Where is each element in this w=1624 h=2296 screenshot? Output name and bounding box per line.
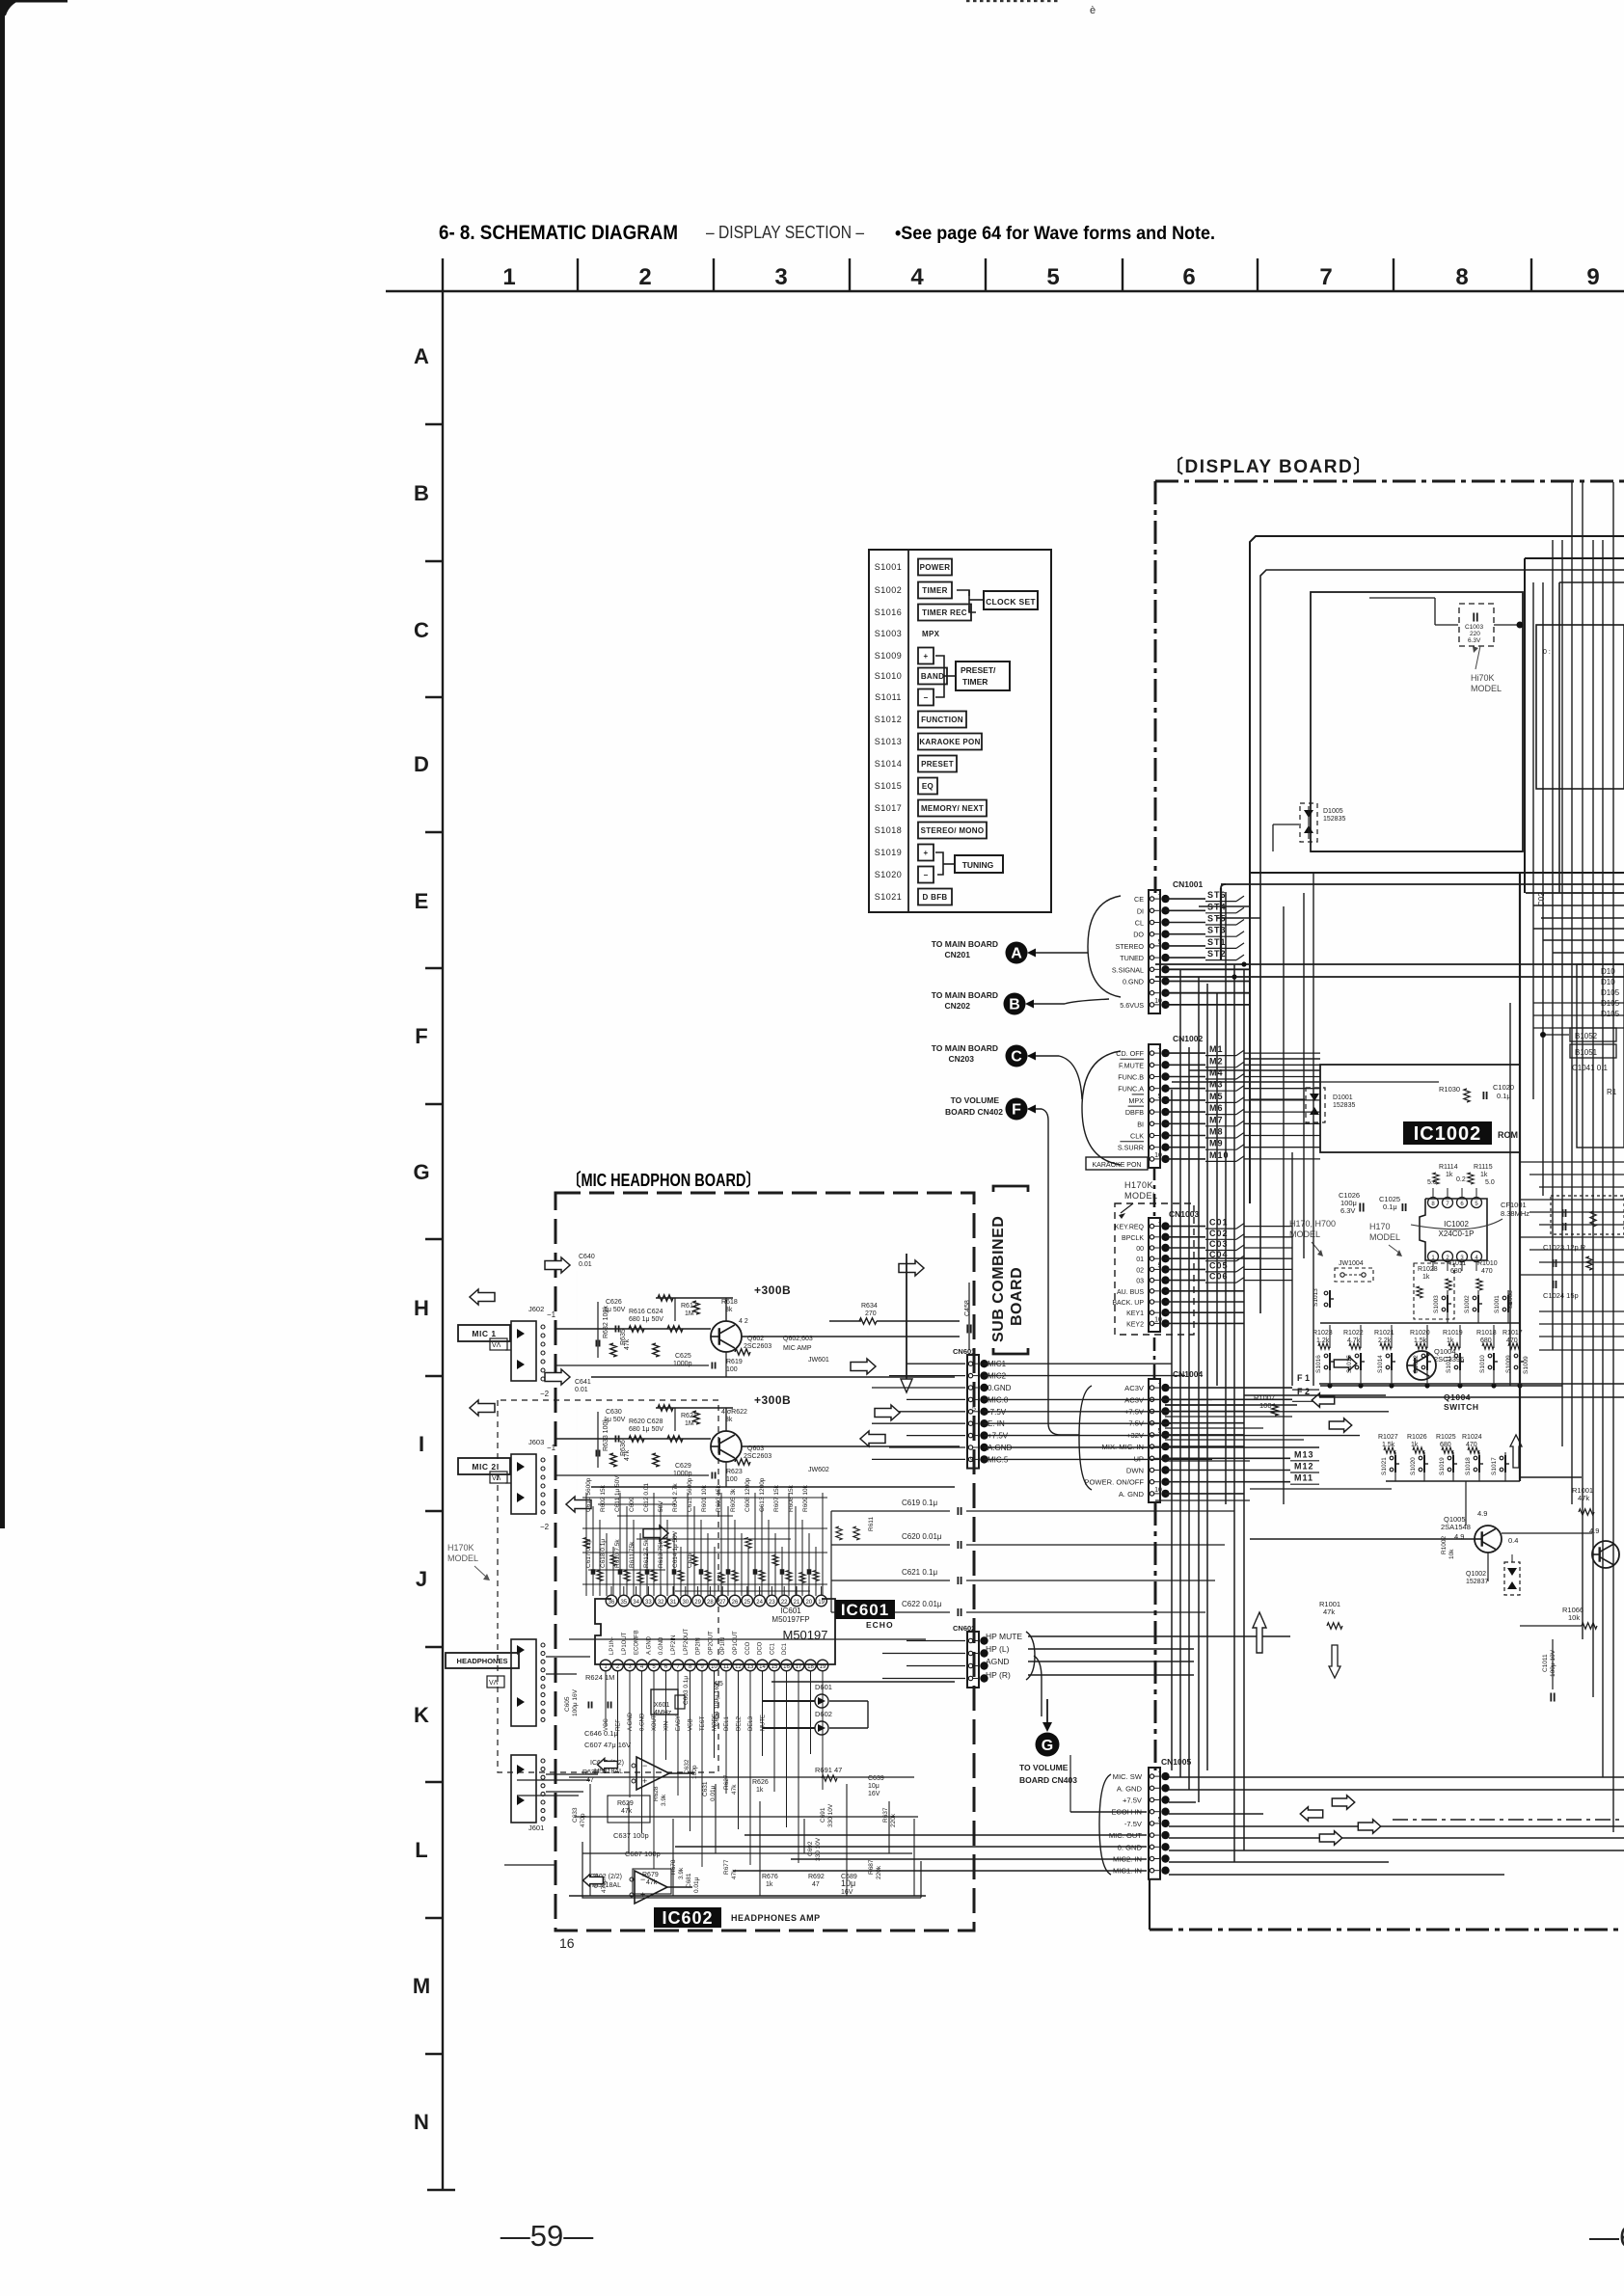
svg-text:HEADPHONES: HEADPHONES	[457, 1657, 508, 1665]
svg-text:ST1: ST1	[1207, 937, 1227, 947]
svg-text:C604 100μ 16V: C604 100μ 16V	[714, 1682, 720, 1726]
svg-text:−2: −2	[540, 1390, 550, 1398]
svg-text:TUNED: TUNED	[1120, 954, 1144, 962]
svg-text:H170K: H170K	[447, 1543, 474, 1553]
svg-text:3k: 3k	[725, 1417, 733, 1423]
svg-text:0.GND: 0.GND	[659, 1636, 664, 1655]
svg-text:AU. BUS: AU. BUS	[1117, 1289, 1144, 1296]
svg-text:CCO: CCO	[745, 1641, 751, 1655]
svg-text:S1003: S1003	[875, 629, 903, 638]
svg-text:MODEL: MODEL	[1289, 1229, 1320, 1239]
svg-text:13: 13	[747, 1664, 754, 1670]
svg-text:1: 1	[972, 1360, 976, 1366]
svg-text:R691 47: R691 47	[815, 1766, 842, 1774]
svg-text:0 :: 0 :	[1543, 649, 1551, 656]
svg-text:SWITCH: SWITCH	[1444, 1402, 1479, 1412]
svg-text:R676: R676	[762, 1874, 778, 1880]
svg-text:S.SURR: S.SURR	[1118, 1144, 1144, 1152]
svg-text:F.MUTE: F.MUTE	[1119, 1061, 1144, 1069]
svg-text:C615 5600p: C615 5600p	[687, 1477, 693, 1512]
svg-text:16V: 16V	[868, 1791, 880, 1797]
svg-text:STEREO/ MONO: STEREO/ MONO	[921, 826, 985, 835]
svg-text:KEY.REQ: KEY.REQ	[1115, 1225, 1145, 1231]
svg-text:BPCLK: BPCLK	[1122, 1235, 1144, 1242]
svg-text:0.GND: 0.GND	[988, 1384, 1012, 1392]
svg-text:28: 28	[707, 1600, 714, 1606]
svg-text:S1021: S1021	[1381, 1457, 1388, 1475]
svg-text:470: 470	[1481, 1268, 1493, 1275]
svg-text:CN1003: CN1003	[1169, 1209, 1199, 1219]
svg-text:1000p: 1000p	[673, 1361, 692, 1367]
svg-text:R605 3k: R605 3k	[730, 1488, 737, 1512]
svg-text:S1018: S1018	[1465, 1457, 1472, 1475]
svg-text:D105: D105	[1601, 999, 1620, 1008]
svg-text:3: 3	[774, 264, 787, 290]
svg-text:100μ 16V: 100μ 16V	[572, 1688, 579, 1716]
svg-text:152835: 152835	[1323, 816, 1345, 823]
svg-text:24: 24	[756, 1600, 763, 1606]
svg-text:FUNC.A: FUNC.A	[1118, 1085, 1144, 1094]
svg-text:10: 10	[1154, 1316, 1162, 1323]
svg-text:SUB COMBINED: SUB COMBINED	[990, 1216, 1007, 1342]
svg-text:5: 5	[1046, 264, 1059, 290]
svg-text:R607 15k: R607 15k	[773, 1484, 780, 1512]
svg-text:10: 10	[1154, 1487, 1162, 1494]
svg-text:32: 32	[658, 1600, 664, 1606]
svg-text:S1017: S1017	[1491, 1457, 1498, 1475]
svg-text:1000p: 1000p	[673, 1471, 692, 1477]
svg-text:−1: −1	[547, 1310, 556, 1319]
svg-text:S1009: S1009	[1505, 1355, 1512, 1373]
svg-text:C458: C458	[964, 1300, 971, 1316]
svg-text:14: 14	[759, 1664, 766, 1670]
svg-text:−1: −1	[547, 1444, 556, 1452]
svg-text:B: B	[414, 481, 429, 505]
svg-text:S1015: S1015	[1346, 1355, 1353, 1373]
svg-text:Q602: Q602	[747, 1336, 764, 1342]
svg-text:1k: 1k	[756, 1787, 764, 1794]
svg-text:FUNC.B: FUNC.B	[1118, 1073, 1144, 1082]
svg-text:HEADPHONES AMP: HEADPHONES AMP	[731, 1913, 821, 1923]
svg-text:CL: CL	[1135, 919, 1144, 928]
svg-text:—59—: —59—	[501, 2219, 593, 2253]
svg-text:100μ 10V: 100μ 10V	[1550, 1649, 1556, 1677]
svg-text:C605: C605	[564, 1696, 571, 1712]
svg-text:6: 6	[1182, 264, 1195, 290]
svg-text:680: 680	[1450, 1268, 1462, 1275]
svg-text:CN1005: CN1005	[1161, 1757, 1191, 1767]
svg-text:C639: C639	[868, 1775, 884, 1782]
svg-text:CLK: CLK	[1130, 1132, 1144, 1141]
svg-text:C1023 12p R: C1023 12p R	[1543, 1243, 1586, 1252]
svg-text:S1015: S1015	[875, 781, 903, 791]
svg-text:S.SIGNAL: S.SIGNAL	[1112, 965, 1144, 974]
svg-text:R637: R637	[882, 1807, 889, 1823]
svg-text:ECOMFB: ECOMFB	[635, 1630, 640, 1655]
svg-text:BOARD CN403: BOARD CN403	[1019, 1775, 1077, 1785]
svg-text:H170, H700: H170, H700	[1289, 1219, 1336, 1229]
svg-text:R1028: R1028	[1418, 1266, 1438, 1273]
svg-text:R602 15k: R602 15k	[600, 1484, 607, 1512]
svg-text:H170K: H170K	[1124, 1180, 1153, 1190]
svg-text:DEL2: DEL2	[737, 1715, 743, 1731]
svg-text:D1001: D1001	[1333, 1094, 1353, 1101]
svg-text:S1016: S1016	[875, 608, 903, 617]
svg-text:5: 5	[1158, 1094, 1162, 1100]
svg-text:4.9: 4.9	[1477, 1509, 1487, 1518]
svg-text:C1041 0.1: C1041 0.1	[1572, 1064, 1608, 1072]
svg-text:C626: C626	[606, 1299, 622, 1306]
svg-text:5: 5	[1158, 1428, 1162, 1435]
svg-text:R617: R617	[681, 1303, 697, 1310]
svg-text:M50197FP: M50197FP	[771, 1615, 809, 1624]
svg-text:JW1004: JW1004	[1339, 1260, 1364, 1267]
svg-text:KARAOKE PON: KARAOKE PON	[1093, 1162, 1142, 1169]
svg-text:R1030: R1030	[1439, 1085, 1460, 1094]
svg-text:220k: 220k	[876, 1865, 882, 1879]
svg-text:C: C	[414, 618, 429, 642]
svg-text:0. GND: 0. GND	[1118, 1843, 1143, 1851]
svg-text:R603 15k: R603 15k	[716, 1484, 722, 1512]
svg-text:R624 1M: R624 1M	[585, 1673, 614, 1682]
svg-text:5: 5	[1158, 1262, 1162, 1269]
svg-text:CLOCK SET: CLOCK SET	[986, 597, 1036, 607]
svg-text:10k: 10k	[1448, 1549, 1455, 1559]
svg-text:29: 29	[694, 1600, 701, 1606]
svg-text:DP2IN: DP2IN	[696, 1637, 702, 1655]
svg-text:M: M	[413, 1974, 430, 1998]
svg-text:A.GND: A.GND	[628, 1712, 634, 1731]
svg-text:0.01: 0.01	[579, 1261, 592, 1268]
svg-text:IC601: IC601	[841, 1601, 889, 1619]
svg-text:5: 5	[1158, 939, 1162, 946]
svg-text:CE: CE	[1134, 895, 1144, 904]
svg-text:21: 21	[794, 1600, 800, 1606]
svg-text:0.1μ: 0.1μ	[1383, 1202, 1397, 1211]
svg-text:C631: C631	[702, 1781, 709, 1796]
svg-text:〔MIC HEADPHON BOARD〕: 〔MIC HEADPHON BOARD〕	[567, 1171, 760, 1190]
svg-text:S1010: S1010	[1479, 1355, 1486, 1373]
svg-text:C610 5600p: C610 5600p	[585, 1477, 592, 1512]
svg-text:−: −	[924, 693, 929, 702]
svg-text:-7.5V: -7.5V	[1124, 1820, 1143, 1828]
svg-text:R620 C628: R620 C628	[629, 1418, 663, 1425]
svg-text:19: 19	[820, 1664, 826, 1670]
svg-text:R611 75k: R611 75k	[629, 1541, 636, 1568]
svg-text:0.01: 0.01	[575, 1387, 588, 1393]
svg-text:R604 2.7k: R604 2.7k	[672, 1483, 679, 1512]
svg-text:C619 0.1μ: C619 0.1μ	[902, 1499, 937, 1507]
svg-text:S1016: S1016	[1315, 1355, 1322, 1373]
svg-text:C: C	[1011, 1049, 1022, 1066]
svg-text:BOARD: BOARD	[1009, 1267, 1025, 1326]
svg-text:1: 1	[1158, 1218, 1162, 1225]
svg-text:12: 12	[735, 1664, 742, 1670]
svg-text:DCO: DCO	[758, 1641, 764, 1655]
svg-text:C1020: C1020	[1493, 1083, 1514, 1092]
svg-text:R612 7.5k: R612 7.5k	[643, 1539, 650, 1568]
svg-text:D105: D105	[1601, 1010, 1620, 1018]
svg-text:R616 C624: R616 C624	[629, 1309, 663, 1315]
svg-text:−: −	[924, 871, 929, 879]
svg-text:B: B	[1009, 997, 1020, 1013]
svg-text:A. GND: A. GND	[1117, 1784, 1143, 1793]
svg-text:BACK. UP: BACK. UP	[1112, 1300, 1144, 1307]
svg-text:VΛ: VΛ	[492, 1342, 501, 1349]
svg-text:R679: R679	[642, 1872, 659, 1878]
svg-text:C611 1μ 50V: C611 1μ 50V	[614, 1475, 621, 1512]
svg-text:R1114: R1114	[1439, 1164, 1458, 1171]
svg-text:Q602,603: Q602,603	[783, 1336, 813, 1342]
svg-text:PRESET/: PRESET/	[961, 665, 996, 675]
svg-text:D105: D105	[1601, 988, 1620, 997]
svg-text:MEMORY/ NEXT: MEMORY/ NEXT	[921, 804, 984, 813]
svg-text:TO VOLUME: TO VOLUME	[1019, 1763, 1069, 1772]
svg-text:S1010: S1010	[875, 671, 903, 681]
svg-text:HP (R): HP (R)	[986, 1670, 1011, 1680]
svg-text:680: 680	[1480, 1337, 1492, 1344]
svg-text:100: 100	[726, 1476, 738, 1483]
svg-text:4: 4	[972, 1636, 976, 1643]
svg-text:TEST: TEST	[700, 1715, 706, 1731]
svg-text:25: 25	[744, 1600, 750, 1606]
svg-text:47k: 47k	[731, 1784, 738, 1795]
svg-text:−2: −2	[540, 1523, 550, 1531]
svg-text:6.3V: 6.3V	[1340, 1206, 1355, 1215]
svg-text:CN203: CN203	[949, 1054, 975, 1064]
svg-text:C607 47μ 16V: C607 47μ 16V	[584, 1741, 631, 1749]
svg-text:100: 100	[726, 1366, 738, 1373]
svg-text:2: 2	[638, 264, 651, 290]
svg-text:D1005: D1005	[1323, 808, 1343, 815]
svg-text:10μ: 10μ	[841, 1878, 855, 1888]
svg-text:LP1OUT: LP1OUT	[622, 1632, 628, 1655]
svg-text:1k: 1k	[1422, 1274, 1430, 1281]
svg-text:H: H	[414, 1296, 429, 1320]
svg-text:1M: 1M	[685, 1310, 694, 1317]
svg-text:CC1: CC1	[770, 1642, 775, 1655]
svg-text:3.9k: 3.9k	[661, 1794, 667, 1806]
svg-text:R623: R623	[726, 1469, 743, 1475]
svg-text:TO MAIN BOARD: TO MAIN BOARD	[932, 939, 998, 949]
svg-text:KARAOKE PON: KARAOKE PON	[919, 738, 980, 746]
svg-text:〔DISPLAY BOARD〕: 〔DISPLAY BOARD〕	[1165, 455, 1373, 477]
svg-text:330 10V: 330 10V	[815, 1837, 822, 1861]
svg-text:4: 4	[910, 264, 924, 290]
svg-text:G: G	[1042, 1738, 1053, 1754]
svg-text:ST2: ST2	[1207, 949, 1227, 959]
svg-text:ROM: ROM	[1498, 1130, 1518, 1140]
svg-text:CN202: CN202	[945, 1001, 971, 1011]
svg-text:16: 16	[783, 1664, 790, 1670]
svg-text:D10: D10	[1601, 978, 1615, 986]
svg-text:S1019: S1019	[875, 848, 903, 857]
svg-text:35: 35	[620, 1600, 627, 1606]
svg-text:C1024 15p: C1024 15p	[1543, 1291, 1579, 1300]
svg-text:N: N	[414, 2110, 429, 2134]
svg-text:C02: C02	[1537, 892, 1546, 906]
svg-text:C681: C681	[686, 1873, 692, 1888]
svg-text:R1010: R1010	[1477, 1260, 1498, 1267]
svg-text:J603: J603	[528, 1438, 544, 1446]
svg-text:1M: 1M	[685, 1420, 694, 1427]
svg-text:S1003: S1003	[1433, 1295, 1440, 1313]
svg-text:R1: R1	[1607, 1088, 1617, 1096]
svg-text:6- 8. SCHEMATIC DIAGRAM: 6- 8. SCHEMATIC DIAGRAM	[439, 222, 678, 244]
svg-text:15: 15	[771, 1664, 778, 1670]
svg-text:17: 17	[796, 1664, 802, 1670]
svg-text:J602: J602	[528, 1305, 544, 1313]
svg-text:R608 15k: R608 15k	[788, 1484, 795, 1512]
svg-text:TIMER: TIMER	[922, 586, 947, 595]
svg-text:A: A	[1011, 946, 1022, 962]
svg-text:S1001: S1001	[1494, 1295, 1501, 1313]
svg-text:36: 36	[609, 1600, 615, 1606]
svg-text:H170: H170	[1369, 1222, 1391, 1231]
svg-text:S1017: S1017	[875, 803, 903, 813]
svg-text:C608 1200p: C608 1200p	[744, 1477, 751, 1512]
svg-text:KEY2: KEY2	[1126, 1321, 1144, 1328]
svg-text:HP MUTE: HP MUTE	[986, 1632, 1022, 1641]
svg-text:8: 8	[1455, 264, 1468, 290]
svg-text:OP1IN: OP1IN	[720, 1637, 726, 1655]
svg-text:AGND: AGND	[986, 1657, 1010, 1666]
svg-text:+: +	[924, 849, 929, 857]
svg-text:C641: C641	[575, 1379, 591, 1386]
svg-text:1k: 1k	[1446, 1172, 1453, 1178]
svg-text:IC601: IC601	[780, 1607, 801, 1615]
svg-text:R601 10k: R601 10k	[701, 1484, 708, 1512]
svg-text:J: J	[416, 1567, 427, 1591]
svg-text:R1025: R1025	[1436, 1434, 1456, 1441]
svg-text:2SC3396: 2SC3396	[1434, 1355, 1464, 1364]
svg-text:EASY: EASY	[676, 1715, 682, 1731]
svg-text:JW601: JW601	[808, 1357, 829, 1364]
svg-text:HP (L): HP (L)	[986, 1644, 1010, 1654]
svg-text:MODEL: MODEL	[1471, 684, 1502, 693]
svg-text:VΛ: VΛ	[489, 1680, 499, 1687]
svg-text:ECHO: ECHO	[866, 1620, 894, 1630]
svg-text:FUNCTION: FUNCTION	[921, 716, 963, 724]
svg-text:C620 0.01μ: C620 0.01μ	[902, 1532, 942, 1541]
svg-text:•See page 64 for Wave forms an: •See page 64 for Wave forms and Note.	[895, 223, 1215, 244]
svg-text:BOARD CN402: BOARD CN402	[945, 1107, 1003, 1117]
svg-text:LPF2IN: LPF2IN	[671, 1635, 677, 1655]
svg-text:C632: C632	[684, 1759, 690, 1774]
svg-text:4 2: 4 2	[739, 1318, 748, 1325]
svg-text:03: 03	[1136, 1279, 1144, 1285]
svg-text:1: 1	[1158, 890, 1162, 897]
svg-text:F 1: F 1	[1297, 1373, 1310, 1383]
svg-text:1: 1	[1158, 1044, 1162, 1051]
svg-text:31: 31	[670, 1600, 677, 1606]
svg-text:10: 10	[1154, 1152, 1162, 1159]
svg-text:M13: M13	[1294, 1449, 1314, 1459]
svg-text:R1024: R1024	[1462, 1434, 1482, 1441]
svg-text:DWN: DWN	[1126, 1467, 1144, 1475]
svg-text:3.9k: 3.9k	[678, 1867, 685, 1879]
svg-text:680 1μ 50V: 680 1μ 50V	[629, 1316, 663, 1323]
svg-text:POWER. ON/OFF: POWER. ON/OFF	[1084, 1478, 1144, 1487]
svg-text:9: 9	[970, 1457, 974, 1464]
svg-text:470: 470	[1506, 1337, 1518, 1344]
svg-text:DEL1: DEL1	[724, 1715, 730, 1731]
svg-text:02: 02	[1136, 1267, 1144, 1274]
svg-text:—6: —6	[1589, 2220, 1624, 2254]
svg-text:47k: 47k	[646, 1879, 658, 1886]
svg-text:R1011: R1011	[1447, 1260, 1466, 1267]
svg-text:33: 33	[645, 1600, 652, 1606]
svg-text:ST6: ST6	[1207, 890, 1227, 900]
svg-text:S1011: S1011	[875, 692, 902, 702]
svg-text:Q1002: Q1002	[1466, 1571, 1486, 1578]
svg-text:C616: C616	[687, 1553, 693, 1568]
svg-text:23: 23	[769, 1600, 775, 1606]
svg-text:R634: R634	[861, 1303, 878, 1310]
svg-text:DO: DO	[1133, 931, 1144, 939]
svg-text:R621: R621	[681, 1413, 697, 1419]
svg-text:LPF2OUT: LPF2OUT	[684, 1629, 690, 1655]
svg-text:LP1IN-: LP1IN-	[609, 1636, 615, 1655]
svg-text:E: E	[415, 889, 429, 913]
svg-text:10: 10	[1154, 998, 1162, 1005]
svg-text:470: 470	[1466, 1442, 1477, 1448]
svg-text:J601: J601	[528, 1823, 544, 1832]
svg-text:F: F	[1012, 1102, 1021, 1119]
svg-text:8.38MHz: 8.38MHz	[1501, 1209, 1529, 1218]
svg-text:34: 34	[633, 1600, 639, 1606]
svg-text:6.3V: 6.3V	[1468, 637, 1481, 644]
svg-text:XIN: XIN	[664, 1721, 670, 1731]
svg-text:0.01μ: 0.01μ	[693, 1877, 700, 1893]
svg-text:S1014: S1014	[875, 759, 903, 769]
svg-text:S1013: S1013	[875, 737, 903, 746]
svg-text:330 10V: 330 10V	[827, 1803, 834, 1827]
svg-text:C622 0.01μ: C622 0.01μ	[902, 1600, 942, 1608]
svg-text:5: 5	[972, 1406, 976, 1413]
svg-text:KEY1: KEY1	[1126, 1310, 1144, 1317]
svg-text:1k: 1k	[766, 1881, 773, 1888]
svg-text:0.1μ: 0.1μ	[1497, 1092, 1511, 1100]
svg-text:5: 5	[1158, 1817, 1162, 1823]
svg-text:C621 0.1μ: C621 0.1μ	[902, 1568, 937, 1577]
svg-text:C609: C609	[629, 1497, 636, 1512]
svg-text:R1115: R1115	[1474, 1164, 1493, 1171]
svg-text:C617 0.1μ: C617 0.1μ	[585, 1539, 592, 1568]
svg-text:è: è	[1090, 5, 1096, 16]
svg-text:I: I	[419, 1432, 424, 1456]
svg-text:A: A	[414, 344, 429, 368]
svg-text:9: 9	[1586, 264, 1599, 290]
svg-text:C603 0.1μ: C603 0.1μ	[683, 1676, 690, 1705]
svg-text:Q603: Q603	[747, 1445, 764, 1452]
svg-text:R687: R687	[868, 1859, 875, 1875]
svg-text:Hi70K: Hi70K	[1471, 673, 1495, 683]
svg-text:2SC2603: 2SC2603	[744, 1453, 771, 1460]
svg-text:47k: 47k	[1578, 1494, 1589, 1502]
svg-text:DEL3: DEL3	[748, 1715, 754, 1731]
svg-text:R619: R619	[726, 1359, 743, 1365]
svg-text:D BFB: D BFB	[923, 893, 948, 902]
svg-text:270: 270	[865, 1310, 877, 1317]
svg-text:D10: D10	[1601, 967, 1615, 976]
svg-text:CN1001: CN1001	[1173, 879, 1203, 889]
svg-text:R629: R629	[617, 1800, 634, 1807]
svg-text:470p: 470p	[580, 1813, 586, 1827]
svg-text:EQ: EQ	[922, 782, 934, 791]
svg-text:+: +	[924, 652, 929, 661]
svg-text:DI: DI	[1137, 906, 1144, 915]
